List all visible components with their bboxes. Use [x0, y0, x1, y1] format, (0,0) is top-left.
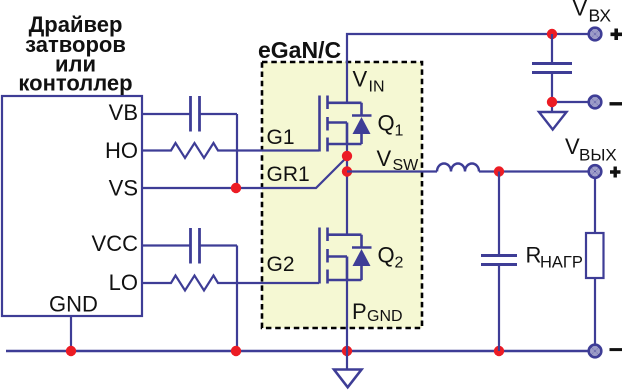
wire Q1 source down to switch node: [346, 144, 348, 235]
transistor Q1: [320, 96, 372, 152]
wire VB to bootstrap cap node: [143, 113, 237, 115]
ground (power): [346, 351, 348, 370]
capacitor C_IN: [532, 34, 572, 112]
capacitor C_OUT: [498, 172, 500, 352]
svg-text:ВХ: ВХ: [589, 6, 612, 26]
svg-text:G2: G2: [267, 253, 295, 276]
eGaN module box: [262, 62, 422, 328]
terminal V_BX minus: [587, 94, 602, 109]
svg-text:HO: HO: [105, 138, 138, 163]
svg-text:eGaN/C: eGaN/C: [258, 37, 341, 63]
ground (input): [539, 112, 567, 130]
wire GND pin: [70, 316, 72, 351]
wire VCC to cap node: [143, 244, 237, 246]
svg-text:IN: IN: [369, 79, 385, 96]
wire input minus: [552, 101, 588, 103]
svg-text:2: 2: [395, 255, 404, 272]
node input cap junction top: [547, 29, 557, 39]
wire node Y vertical: [236, 246, 238, 352]
inductor L1: [437, 164, 479, 172]
svg-text:P: P: [352, 299, 367, 324]
wire VSW output: [347, 170, 588, 172]
wire Q2 source to rail: [346, 280, 348, 351]
svg-text:R: R: [526, 243, 542, 268]
terminal V_VYH minus: [587, 343, 602, 358]
node Y rail junction: [231, 346, 241, 356]
svg-text:GR1: GR1: [267, 163, 310, 186]
wire ground rail: [6, 350, 588, 353]
svg-text:G1: G1: [267, 126, 295, 149]
svg-text:V: V: [377, 146, 392, 171]
svg-text:Q: Q: [378, 111, 395, 136]
svg-text:контоллер: контоллер: [18, 71, 132, 96]
wire VIN vertical and top feed: [347, 34, 588, 103]
node main rail junction: [342, 346, 352, 356]
svg-text:GND: GND: [49, 292, 98, 317]
svg-text:ВЫХ: ВЫХ: [579, 146, 617, 165]
svg-text:V: V: [573, 0, 588, 21]
terminal V_BX plus: [587, 26, 602, 41]
driver box U1: [2, 96, 142, 316]
wire load chain: [594, 179, 596, 344]
svg-text:НАГР: НАГР: [540, 254, 583, 272]
resistor R2 (gate low): [143, 276, 319, 291]
svg-text:GND: GND: [367, 308, 403, 325]
terminal V_VYH plus: [587, 164, 602, 179]
wire VS: [143, 157, 347, 188]
node switch VSW: [342, 166, 352, 176]
node switch upper: [342, 151, 352, 161]
node VS junction: [231, 183, 241, 193]
resistor R_load: [586, 233, 604, 278]
minus sign input: [610, 102, 622, 105]
svg-text:V: V: [353, 67, 368, 92]
capacitor C1 (bootstrap): [191, 96, 200, 132]
svg-text:Q: Q: [378, 243, 395, 268]
minus sign output: [610, 348, 622, 351]
node input cap junction bottom: [547, 97, 557, 107]
node VSW-Cout junction: [494, 166, 504, 176]
plus sign output: [610, 167, 621, 178]
node Cout rail junction: [494, 346, 504, 356]
svg-text:V: V: [565, 134, 580, 159]
svg-text:1: 1: [395, 123, 404, 140]
svg-text:VB: VB: [109, 100, 138, 125]
transistor Q2: [320, 228, 372, 284]
svg-text:VCC: VCC: [92, 231, 139, 256]
resistor R1 (gate high): [143, 143, 319, 158]
node GND rail junction: [66, 346, 76, 356]
svg-text:VS: VS: [109, 176, 138, 201]
plus sign input: [611, 29, 622, 41]
wire node X vertical: [236, 114, 238, 188]
capacitor C2 (VCC bypass): [191, 228, 200, 264]
svg-text:LO: LO: [109, 270, 138, 295]
